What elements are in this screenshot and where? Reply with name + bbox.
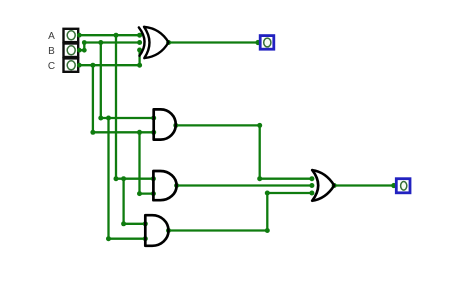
svg-text:B: B — [48, 46, 55, 57]
node AND3 route corner high — [265, 191, 270, 196]
node B corner lower — [82, 48, 87, 53]
node output box 2 terminal — [391, 183, 396, 188]
wire A vertical drop — [115, 35, 117, 179]
node AND1 top junction — [106, 116, 111, 121]
node B corner upper — [82, 40, 87, 45]
node A junction — [114, 33, 119, 38]
wire B vertical drop — [100, 43, 102, 119]
wire C to XOR input — [138, 50, 140, 65]
node XOR input 1 — [137, 33, 142, 38]
wire B jog — [79, 43, 140, 51]
node AND1 output — [173, 123, 178, 128]
node XOR input 3 — [137, 48, 142, 53]
node B box exit — [77, 48, 82, 53]
node AND3 route corner low — [265, 228, 270, 233]
output box carry — [396, 179, 410, 193]
wire XOR output — [169, 41, 260, 43]
node AND1 route corner — [257, 123, 262, 128]
svg-text:C: C — [48, 61, 55, 72]
node AND3 top terminal — [143, 221, 148, 226]
wire AND3 output to OR — [169, 193, 312, 231]
output box sum — [260, 36, 274, 50]
node AND1 route corner low — [257, 176, 262, 181]
node AND1 bottom junction — [137, 130, 142, 135]
node XOR input 2 — [137, 40, 142, 45]
wire AND2 top input — [116, 178, 153, 180]
or gate U5 — [312, 170, 334, 201]
and gate U2 — [154, 109, 176, 139]
svg-text:A: A — [48, 31, 55, 42]
wire OR output — [334, 184, 395, 186]
node AND3 bottom corner — [106, 236, 111, 241]
node C junction — [90, 63, 95, 68]
wire C vertical drop — [92, 65, 94, 132]
wire A row — [79, 34, 140, 36]
node C corner — [137, 63, 142, 68]
node OR input 2 — [309, 183, 314, 188]
wire C row — [79, 64, 140, 66]
wire AND1 bottom input — [93, 131, 154, 133]
input B box — [64, 44, 79, 58]
node AND3 bottom terminal — [143, 236, 148, 241]
node AND2 bottom corner — [137, 191, 142, 196]
node A box exit — [77, 33, 82, 38]
node AND1 bottom terminal — [151, 130, 156, 135]
node AND3 top corner — [121, 221, 126, 226]
node C box exit — [77, 63, 82, 68]
node AND2 top junction — [121, 176, 126, 181]
wire AND1 output to OR — [176, 125, 312, 178]
node OR input 3 — [309, 191, 314, 196]
input A box — [64, 29, 79, 42]
wire AND2 bottom feed — [140, 132, 154, 193]
node B corner AND1 — [98, 116, 103, 121]
and gate U3 — [153, 171, 176, 200]
wire AND3 top feed — [124, 179, 146, 224]
node AND2 output — [174, 183, 179, 188]
node C corner AND1 — [90, 130, 95, 135]
node B junction — [98, 40, 103, 45]
node OR input 1 — [309, 176, 314, 181]
xor gate U1 — [139, 27, 169, 58]
node AND1 top terminal — [151, 116, 156, 121]
wire AND2 output to OR — [177, 184, 312, 186]
node AND2 bottom terminal — [151, 191, 156, 196]
node XOR output — [166, 40, 171, 45]
node AND3 output — [166, 228, 171, 233]
input C box — [64, 58, 79, 71]
node output box 1 terminal — [255, 40, 260, 45]
node A corner AND2 — [114, 176, 119, 181]
node OR output — [332, 183, 337, 188]
wire AND1 top input — [101, 117, 154, 119]
and gate U4 — [145, 215, 168, 246]
wire AND3 bottom feed — [109, 118, 146, 239]
node AND2 top terminal — [151, 176, 156, 181]
